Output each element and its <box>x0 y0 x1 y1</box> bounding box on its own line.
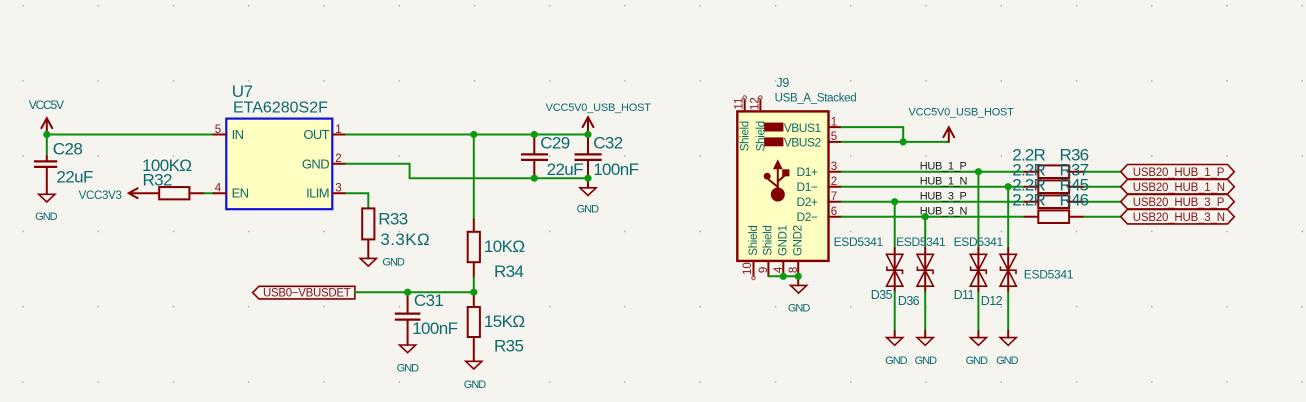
wire VCC5V to U7 IN <box>47 134 214 136</box>
svg-text:GND: GND <box>577 204 600 216</box>
global label USB20_HUB_3_P <box>1121 195 1235 210</box>
svg-text:D1−: D1− <box>797 180 818 194</box>
svg-text:GND: GND <box>464 379 487 391</box>
svg-text:EN: EN <box>232 186 249 201</box>
svg-text:10KΩ: 10KΩ <box>484 237 525 256</box>
svg-text:C29: C29 <box>540 134 570 153</box>
svg-text:D2−: D2− <box>797 210 818 224</box>
svg-text:D2+: D2+ <box>797 195 818 209</box>
U7 pin 3 ILIM <box>306 182 346 200</box>
capacitor C29 <box>521 135 548 179</box>
power flag VCC5V0_USB_HOST right <box>909 107 1015 142</box>
svg-text:3.3KΩ: 3.3KΩ <box>380 230 430 249</box>
svg-text:4: 4 <box>773 266 785 273</box>
svg-text:GND: GND <box>788 303 811 315</box>
junction HUB_3_P / D35 <box>891 198 898 205</box>
svg-text:9: 9 <box>758 267 770 273</box>
svg-text:Shield: Shield <box>740 121 752 151</box>
wire R37 to label <box>1084 186 1120 188</box>
J9 pin 9 Shield bottom <box>758 226 774 277</box>
svg-text:10: 10 <box>742 262 754 275</box>
svg-text:HUB_1_N: HUB_1_N <box>920 175 968 187</box>
wire R34 to VBUSDET node <box>473 277 475 292</box>
wire R45 to label <box>1084 201 1120 203</box>
wire U7 GND pin to caps <box>346 164 588 178</box>
TVS diode D11 <box>970 248 986 292</box>
J9 pin 8 GND2 <box>788 225 804 276</box>
ground below D12 <box>996 338 1019 368</box>
TVS diode D12 <box>1000 248 1016 292</box>
svg-text:USB20_HUB_3_P: USB20_HUB_3_P <box>1133 197 1225 209</box>
wire D36 to gnd <box>924 292 926 331</box>
svg-text:ESD5341: ESD5341 <box>1024 267 1074 281</box>
wire HUB_3_N <box>842 216 1025 218</box>
svg-text:22uF: 22uF <box>547 160 584 179</box>
svg-text:IN: IN <box>232 127 244 142</box>
TVS diode D35 <box>887 248 903 292</box>
junction R34/R35/VBUSDET <box>470 289 477 296</box>
wire U7 ILIM to R33 <box>346 193 368 208</box>
svg-text:USB_A_Stacked: USB_A_Stacked <box>775 92 857 104</box>
svg-text:12: 12 <box>750 97 762 110</box>
svg-text:4: 4 <box>215 182 222 194</box>
resistor R32 <box>159 187 204 199</box>
svg-text:D35: D35 <box>871 288 893 302</box>
ground below C32 <box>577 178 600 215</box>
junction HUB_1_P / D11 <box>975 168 982 175</box>
ground below C28 <box>35 194 58 223</box>
TVS diode D36 <box>917 248 933 292</box>
power flag VCC3V3 <box>79 188 160 202</box>
wire D11 to gnd <box>977 292 979 331</box>
wire D12 to gnd <box>1007 292 1009 331</box>
power flag VCC5V0_USB_HOST left <box>546 102 652 134</box>
value 2.2R R45 <box>1012 176 1088 195</box>
J9 pin 1 VBUS1 <box>764 116 841 134</box>
wire HUB_1_N <box>842 186 1025 188</box>
junction GND2 <box>795 273 802 280</box>
svg-text:6: 6 <box>831 206 837 218</box>
svg-text:1: 1 <box>335 124 341 136</box>
svg-text:HUB_1_P: HUB_1_P <box>920 160 967 172</box>
svg-text:ILIM: ILIM <box>306 186 329 201</box>
wire VBUS2 to power <box>842 141 949 143</box>
wire HUB_1_N down to D12 <box>1007 187 1009 248</box>
U7 pin 5 IN <box>214 124 244 142</box>
wire R36 to label <box>1084 171 1120 173</box>
resistor R46 <box>1025 210 1085 223</box>
svg-text:ESD5341: ESD5341 <box>896 235 946 249</box>
resistor R36 <box>1025 165 1085 178</box>
junction OUT/R34 <box>470 131 477 138</box>
svg-text:3: 3 <box>335 182 341 194</box>
capacitor C28 <box>34 135 57 195</box>
svg-text:GND: GND <box>302 156 329 171</box>
wire HUB_1_P down to D11 <box>977 172 979 248</box>
svg-text:GND: GND <box>885 355 908 367</box>
svg-text:D36: D36 <box>898 294 920 308</box>
wire R46 to label <box>1084 216 1120 218</box>
regulator U7 body <box>226 119 332 210</box>
svg-text:ESD5341: ESD5341 <box>954 235 1004 249</box>
svg-text:Shield: Shield <box>748 226 760 256</box>
svg-text:GND2: GND2 <box>792 225 804 256</box>
wire HUB_3_P down to D35 <box>894 202 896 248</box>
svg-text:11: 11 <box>734 98 746 110</box>
wire HUB_1_P <box>842 171 1025 173</box>
svg-text:C32: C32 <box>593 134 623 153</box>
junction OUT/C29 <box>531 131 538 138</box>
svg-text:Shield: Shield <box>763 226 775 256</box>
svg-text:C31: C31 <box>414 291 444 310</box>
power flag VCC5V <box>29 98 64 135</box>
J9 pin 7 D2+ <box>797 191 842 209</box>
J9 pin 3 D1+ <box>797 161 842 179</box>
svg-text:D12: D12 <box>981 294 1003 308</box>
svg-text:15KΩ: 15KΩ <box>484 312 525 331</box>
wire R32 to U7 EN <box>205 192 214 194</box>
capacitor C32 <box>575 135 602 179</box>
svg-text:ETA6280S2F: ETA6280S2F <box>233 99 328 116</box>
svg-text:VCC5V: VCC5V <box>29 98 64 112</box>
wire OUT down to R34 <box>473 135 475 220</box>
J9 pin 4 GND1 <box>773 225 789 276</box>
svg-text:VBUS2: VBUS2 <box>784 136 822 150</box>
wire VBUS1 to VBUS2 net <box>842 127 904 142</box>
J9 pin 11 Shield top <box>734 96 752 151</box>
ground below D35 <box>885 338 908 368</box>
ground below C31 <box>397 345 420 375</box>
U7 pin 4 EN <box>214 182 249 200</box>
global label USB20_HUB_1_N <box>1121 180 1235 195</box>
J9 pin 6 D2- <box>797 206 842 224</box>
svg-text:VCC5V0_USB_HOST: VCC5V0_USB_HOST <box>909 107 1015 119</box>
wire J9 gnd pins <box>768 275 798 277</box>
svg-text:2: 2 <box>335 153 341 165</box>
svg-text:USB20_HUB_1_N: USB20_HUB_1_N <box>1133 182 1225 194</box>
wire HUB_3_P <box>842 201 1025 203</box>
svg-text:7: 7 <box>831 191 837 203</box>
svg-text:ESD5341: ESD5341 <box>834 235 884 249</box>
svg-text:GND: GND <box>996 355 1019 367</box>
svg-text:R34: R34 <box>494 262 524 281</box>
svg-text:3: 3 <box>831 161 837 173</box>
svg-text:5: 5 <box>215 124 221 136</box>
ground below R35 <box>464 361 487 391</box>
svg-text:5: 5 <box>831 131 837 143</box>
wire HUB_3_N down to D36 <box>924 217 926 248</box>
svg-text:C28: C28 <box>53 140 83 159</box>
U7 pin 1 OUT <box>303 124 346 142</box>
connector J9 body <box>737 111 828 261</box>
svg-text:GND1: GND1 <box>778 225 790 256</box>
svg-text:1: 1 <box>831 116 837 128</box>
svg-text:OUT: OUT <box>303 127 329 142</box>
svg-text:100nF: 100nF <box>593 160 638 179</box>
svg-text:D11: D11 <box>954 288 975 302</box>
svg-text:VBUS1: VBUS1 <box>784 121 822 135</box>
USB icon inside J9 <box>764 159 790 201</box>
junction C32 bottom <box>584 175 591 182</box>
svg-text:GND: GND <box>397 363 420 375</box>
svg-text:GND: GND <box>382 257 405 269</box>
resistor R33 <box>362 208 374 258</box>
junction C31 top <box>404 289 411 296</box>
junction HUB_1_N / D12 <box>1005 183 1012 190</box>
resistor R45 <box>1025 195 1085 208</box>
svg-text:R35: R35 <box>494 337 524 356</box>
resistor R37 <box>1025 180 1085 193</box>
value 2.2R R37 <box>1012 161 1088 180</box>
global label USB0-VBUSDET <box>253 286 355 299</box>
global label USB20_HUB_1_P <box>1121 165 1235 180</box>
J9 pin 12 Shield top <box>750 96 768 151</box>
svg-text:8: 8 <box>788 267 800 273</box>
value 2.2R R46 <box>1012 191 1088 210</box>
J9 pin 2 D1- <box>797 176 842 194</box>
ground below J9 <box>788 276 811 314</box>
resistor R35 <box>468 292 480 361</box>
svg-text:HUB_3_P: HUB_3_P <box>920 190 967 202</box>
capacitor C31 <box>395 292 421 345</box>
global label USB20_HUB_3_N <box>1121 210 1235 225</box>
svg-text:100nF: 100nF <box>412 319 457 338</box>
svg-text:USB20_HUB_3_N: USB20_HUB_3_N <box>1133 212 1225 224</box>
junction OUT/C32 <box>584 131 591 138</box>
svg-text:D1+: D1+ <box>797 165 818 179</box>
resistor R34 <box>468 220 480 278</box>
U7 pin 2 GND <box>302 153 346 171</box>
svg-text:22uF: 22uF <box>56 167 93 186</box>
svg-text:VCC5V0_USB_HOST: VCC5V0_USB_HOST <box>546 102 652 114</box>
wire VBUSDET to R34 node <box>355 291 474 293</box>
svg-text:R33: R33 <box>378 210 408 229</box>
svg-text:GND: GND <box>966 355 989 367</box>
junction HUB_3_N / D36 <box>922 213 929 220</box>
svg-text:2.2R: 2.2R <box>1012 191 1045 210</box>
svg-text:J9: J9 <box>776 76 789 90</box>
svg-text:GND: GND <box>915 355 938 367</box>
ground below D11 <box>966 338 989 368</box>
junction VCC5V node <box>43 131 50 138</box>
svg-text:GND: GND <box>35 211 58 223</box>
svg-text:VCC3V3: VCC3V3 <box>79 190 122 202</box>
svg-text:R46: R46 <box>1060 191 1089 210</box>
junction VBUS net <box>900 138 907 145</box>
svg-text:USB20_HUB_1_P: USB20_HUB_1_P <box>1133 167 1225 179</box>
svg-text:USB0−VBUSDET: USB0−VBUSDET <box>263 287 351 299</box>
value 2.2R R36 <box>1012 146 1088 165</box>
junction C29 bottom <box>531 175 538 182</box>
svg-text:R32: R32 <box>143 170 173 189</box>
junction GND1 <box>780 273 787 280</box>
ground below D36 <box>915 338 938 368</box>
J9 pin 5 VBUS2 <box>764 131 841 150</box>
svg-text:2: 2 <box>831 176 837 188</box>
J9 pin 10 Shield bottom <box>742 226 760 280</box>
wire D35 to gnd <box>894 292 896 331</box>
wire OUT net <box>346 134 588 136</box>
svg-text:U7: U7 <box>232 82 253 101</box>
ground below R33 <box>360 257 405 269</box>
